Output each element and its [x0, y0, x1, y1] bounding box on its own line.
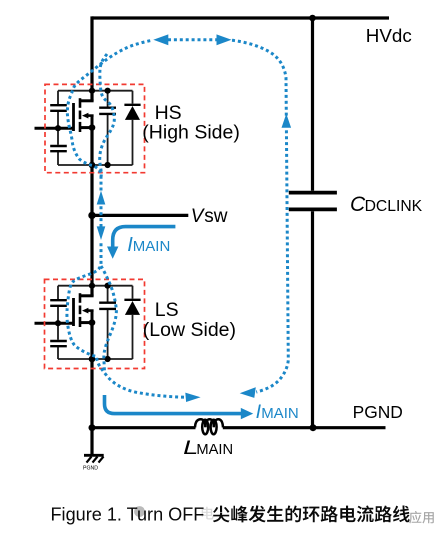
svg-text:MAIN: MAIN	[133, 238, 171, 255]
svg-text:HVdc: HVdc	[366, 25, 412, 46]
svg-text:LS: LS	[155, 299, 179, 321]
svg-text:(High Side): (High Side)	[142, 122, 240, 144]
svg-text:PGND: PGND	[83, 465, 98, 471]
svg-text:MAIN: MAIN	[196, 442, 233, 458]
svg-text:C: C	[350, 193, 366, 216]
svg-text:MAIN: MAIN	[261, 405, 299, 422]
svg-text:Figure 1. Turn OFF: Figure 1. Turn OFF	[51, 505, 205, 525]
svg-text:(Low Side): (Low Side)	[143, 319, 236, 341]
svg-text:PGND: PGND	[353, 402, 403, 422]
svg-text:DCLINK: DCLINK	[365, 198, 423, 215]
svg-text:sw: sw	[204, 206, 228, 227]
